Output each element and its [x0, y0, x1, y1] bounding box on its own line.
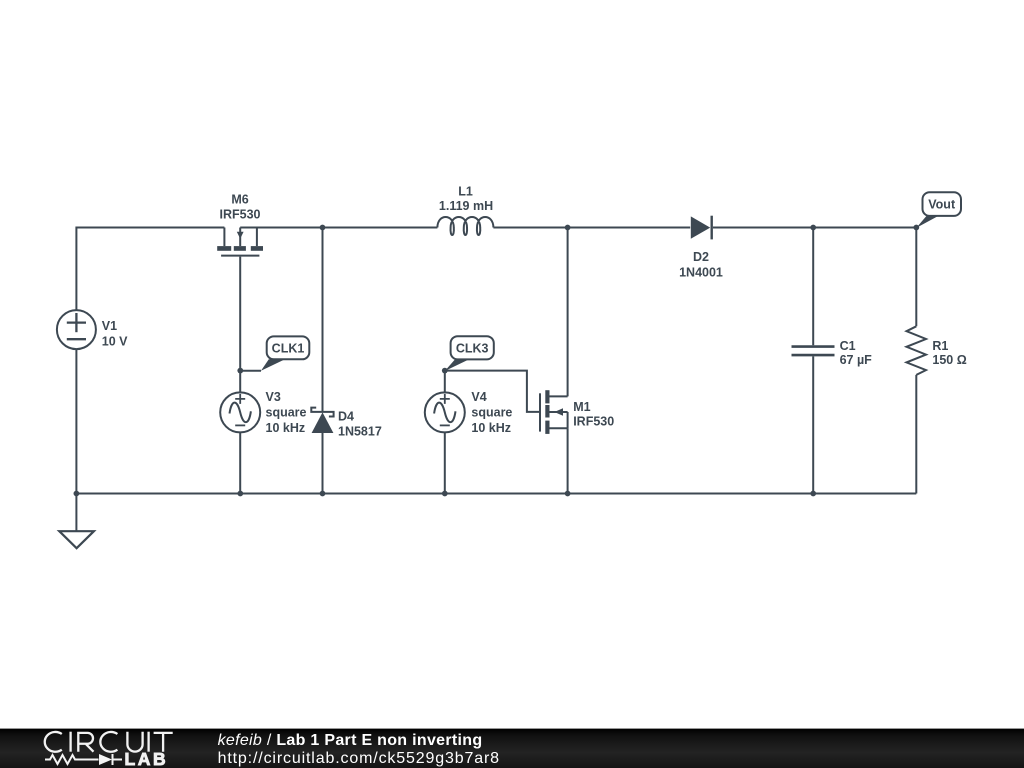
wire CLK3 node to M1 gate: [445, 371, 539, 412]
svg-text:square: square: [266, 405, 307, 419]
svg-text:Vout: Vout: [928, 198, 956, 212]
svg-text:10 kHz: 10 kHz: [266, 421, 306, 435]
label M1 IRF530: [573, 400, 614, 429]
junction top rail / C1 top: [810, 225, 816, 231]
label V4 square 10 kHz: [471, 390, 512, 435]
svg-text:150 Ω: 150 Ω: [932, 353, 966, 367]
wire top rail right from M6 source to L1: [240, 227, 437, 229]
label R1 value 150 Ohm: [932, 339, 966, 367]
svg-text:IRF530: IRF530: [220, 208, 261, 222]
svg-text:LAB: LAB: [125, 749, 169, 768]
svg-text:http://circuitlab.com/ck5529g3: http://circuitlab.com/ck5529g3b7ar8: [218, 750, 500, 767]
svg-text:M1: M1: [573, 400, 590, 414]
node CLK3 junction: [442, 368, 448, 374]
junction ground rail / M1 source: [565, 491, 571, 497]
net flag Vout: [916, 192, 961, 228]
wire R1 bottom lead: [915, 375, 917, 494]
wire M1 source lead: [567, 428, 569, 493]
junction ground rail / V4: [442, 491, 448, 497]
junction top rail / D4 cathode: [320, 225, 326, 231]
circuitlab logo wordmark CIRCUIT (drawn strokes): [45, 732, 173, 752]
svg-text:1N5817: 1N5817: [338, 424, 382, 438]
wire bottom rail: [76, 493, 916, 495]
wire D4 bottom lead: [322, 433, 324, 494]
svg-text:V3: V3: [266, 390, 281, 404]
svg-text:M6: M6: [231, 193, 248, 207]
wire C1 bottom lead: [812, 356, 814, 493]
junction ground rail / C1 bottom: [810, 491, 816, 497]
footer bar: [0, 728, 1024, 768]
ground: [59, 494, 94, 549]
junction ground rail / V1: [74, 491, 80, 497]
wire M1 drain lead: [567, 228, 569, 397]
svg-text:CLK1: CLK1: [272, 341, 305, 355]
svg-text:L1: L1: [458, 185, 473, 199]
junction top rail / M1 drain: [565, 225, 571, 231]
label L1 value 1.119 mH: [439, 185, 493, 214]
label C1 value 67 uF: [840, 339, 873, 367]
wire V1 bottom lead: [75, 349, 77, 493]
svg-text:67 µF: 67 µF: [840, 353, 873, 367]
clk flag CLK3: [445, 336, 494, 371]
wire V3 bottom lead: [239, 432, 241, 493]
diode D2 1N4001: [691, 216, 712, 240]
wire C1 top lead: [812, 228, 814, 346]
transistor M6 IRF530 (rotated NMOS): [217, 228, 263, 256]
wire CLK3 node to V4 top: [444, 371, 446, 392]
svg-text:CLK3: CLK3: [456, 341, 489, 355]
wire top rail from D2 to Vout node: [713, 227, 916, 229]
diode D4 1N5817 (schottky, pointing up): [311, 408, 333, 433]
svg-text:D4: D4: [338, 410, 354, 424]
svg-text:1N4001: 1N4001: [679, 265, 723, 279]
wire top rail left from V1 to M6 drain: [76, 228, 224, 311]
svg-text:IRF530: IRF530: [573, 415, 614, 429]
wire top rail from L1 to D2: [493, 227, 690, 229]
label V3 square 10 kHz: [266, 390, 307, 435]
svg-text:C1: C1: [840, 339, 856, 353]
label M6 IRF530: [220, 193, 261, 222]
wire R1 top lead: [915, 228, 917, 327]
svg-text:V1: V1: [102, 319, 117, 333]
svg-text:kefeib / Lab 1 Part E non inve: kefeib / Lab 1 Part E non inverting: [218, 732, 483, 749]
capacitor C1: [792, 347, 835, 356]
voltage source V4 (square 10 kHz): [425, 392, 465, 432]
junction ground rail / V3: [237, 491, 243, 497]
svg-text:square: square: [471, 405, 512, 419]
svg-text:10 V: 10 V: [102, 335, 128, 349]
wire D4 top lead: [322, 228, 324, 412]
label D2 1N4001: [679, 250, 723, 279]
transistor M1 IRF530 (NMOS): [540, 390, 568, 434]
wire M6 gate to V3 through CLK1 node: [239, 257, 241, 393]
resistor R1: [907, 326, 927, 375]
label D4 1N5817: [338, 410, 382, 439]
clk flag CLK1: [240, 336, 309, 370]
voltage source V1: [57, 310, 96, 349]
junction ground rail / D4 anode: [320, 491, 326, 497]
wire V4 bottom lead: [444, 432, 446, 493]
label V1 value 10 V: [102, 319, 128, 349]
node CLK1 junction: [237, 368, 243, 374]
circuitlab logo resistor-diode motif: [45, 754, 122, 765]
svg-text:R1: R1: [932, 339, 948, 353]
svg-text:1.119 mH: 1.119 mH: [439, 199, 493, 213]
svg-text:D2: D2: [693, 250, 709, 264]
node Vout junction: [913, 225, 919, 231]
inductor L1: [437, 217, 493, 235]
voltage source V3 (square 10 kHz): [220, 392, 260, 432]
svg-text:V4: V4: [471, 390, 486, 404]
svg-text:10 kHz: 10 kHz: [471, 421, 511, 435]
